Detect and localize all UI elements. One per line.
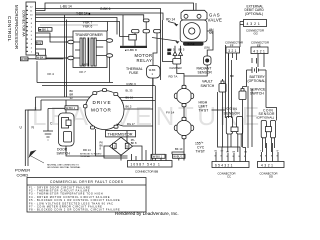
thermistor: [100, 131, 137, 156]
svg-text:W-BK: W-BK: [21, 57, 28, 61]
connector EE: [251, 40, 269, 53]
gas valve base: [183, 42, 204, 46]
node U: [20, 126, 23, 130]
svg-text:VALVE: VALVE: [208, 18, 223, 23]
wire motor right leads: [96, 98, 156, 157]
svg-text:SENSOR: SENSOR: [198, 71, 213, 75]
svg-text:BK 8: BK 8: [131, 141, 137, 145]
door switch: [57, 113, 75, 156]
svg-text:RD 7A: RD 7A: [169, 74, 178, 78]
svg-text:BR: BR: [70, 93, 74, 97]
svg-text:L-BU 14: L-BU 14: [60, 5, 72, 9]
svg-text:MICROPROCESSOR: MICROPROCESSOR: [14, 5, 19, 49]
note keyed terminal: [80, 153, 102, 159]
wire vertical main bus: [153, 78, 156, 161]
svg-text:TRANSFORMER: TRANSFORMER: [75, 33, 103, 37]
wire stubs into DD: [262, 143, 279, 162]
svg-text:BL 33: BL 33: [126, 89, 133, 93]
igniter: [169, 59, 183, 79]
wire top right: [161, 20, 208, 80]
svg-text:FV 14: FV 14: [166, 111, 175, 115]
callout arrow: [168, 22, 176, 24]
cycling thermostat: [166, 111, 205, 154]
svg-text:SWITCH: SWITCH: [57, 152, 71, 156]
svg-text:BASE: BASE: [82, 63, 89, 67]
svg-text:W: W: [277, 151, 279, 153]
transformer T1: [48, 31, 113, 83]
svg-text:RG 17: RG 17: [127, 122, 135, 126]
svg-text:W-BU 1: W-BU 1: [173, 155, 183, 159]
wire label W-BU 1: [173, 154, 186, 158]
svg-text:R-BK 6: R-BK 6: [127, 82, 137, 86]
svg-text:GROUNDED NEUTRAL TERMINAL: GROUNDED NEUTRAL TERMINAL: [47, 166, 81, 169]
wire cyc to BB: [172, 152, 184, 161]
svg-text:4321: 4321: [261, 163, 275, 167]
connector FF: [225, 40, 243, 53]
svg-text:FK 4: FK 4: [48, 72, 55, 76]
svg-text:RELAY: RELAY: [137, 58, 153, 63]
coin sensor 1: [224, 107, 243, 152]
wire label Y-BK 14: [76, 11, 90, 15]
svg-text:BR: BR: [230, 74, 234, 78]
wire label W-BU 1 left: [65, 106, 78, 110]
connector BB: [128, 161, 173, 174]
svg-text:W-BK 1: W-BK 1: [37, 55, 46, 59]
svg-text:FK 7: FK 7: [80, 70, 87, 74]
drive motor: [84, 89, 124, 130]
wire label G-BK 6: [100, 7, 111, 11]
svg-text:BK 3: BK 3: [126, 105, 132, 109]
service switch: [239, 87, 266, 100]
svg-text:TH'ST: TH'ST: [196, 150, 206, 154]
svg-text:BASE: BASE: [188, 42, 195, 46]
wire label Y-BK 6: [83, 25, 93, 29]
svg-text:8: 8: [239, 156, 240, 158]
wire label W-BU 1 bus: [152, 154, 165, 158]
svg-text:W-BU 1: W-BU 1: [66, 106, 76, 110]
svg-text:■-BK 1: ■-BK 1: [39, 28, 49, 32]
svg-text:SENSOR: SENSOR: [224, 111, 241, 115]
connector GG: [240, 20, 267, 36]
svg-text:8: 8: [277, 156, 278, 158]
svg-text:RD 14: RD 14: [166, 17, 175, 21]
node N: [32, 126, 35, 130]
svg-text:8: 8: [265, 156, 266, 158]
svg-text:CC: CC: [227, 175, 231, 179]
svg-text:8: 8: [221, 156, 222, 158]
battery: [247, 67, 267, 83]
svg-text:8: 8: [215, 156, 216, 158]
gas valve coil terminals: [173, 46, 183, 59]
svg-text:BK 5: BK 5: [179, 48, 185, 52]
svg-text:CONNECTOR BB: CONNECTOR BB: [135, 170, 158, 174]
motor relay K1: [108, 15, 161, 63]
callout arrow: [152, 38, 177, 42]
wire labels motor: [70, 89, 136, 153]
gas valve: [152, 10, 222, 58]
svg-text:RD 14: RD 14: [83, 148, 91, 152]
svg-text:SWITCH: SWITCH: [201, 84, 215, 88]
svg-text:8: 8: [271, 156, 272, 158]
svg-text:DRIVE: DRIVE: [93, 100, 112, 105]
svg-text:Rendered by LeadVenture, Inc.: Rendered by LeadVenture, Inc.: [115, 211, 179, 216]
svg-text:IGNITER: IGNITER: [170, 66, 183, 70]
svg-text:10987 543 1: 10987 543 1: [131, 163, 161, 167]
svg-text:W-BK: W-BK: [149, 68, 156, 72]
svg-text:CONTROL: CONTROL: [7, 16, 12, 42]
power cord: [15, 97, 81, 177]
svg-text:Y-BK 6: Y-BK 6: [83, 25, 93, 29]
wire label L-BU 14: [60, 5, 72, 9]
svg-text:▸O-BK 8: ▸O-BK 8: [125, 48, 137, 52]
wire label W-BK 1: [39, 28, 53, 32]
svg-text:TERMINAL: TERMINAL: [80, 155, 91, 158]
svg-text:GG: GG: [254, 32, 258, 36]
svg-text:33: 33: [70, 96, 73, 100]
svg-text:CONNECTOR AA: CONNECTOR AA: [21, 10, 25, 37]
connector AA pin numbers: [30, 6, 33, 53]
svg-text:5/5: 5/5: [209, 31, 213, 35]
svg-text:FUSE: FUSE: [129, 71, 139, 75]
wire top bus from connector AA: [36, 3, 197, 58]
svg-text:4321: 4321: [247, 22, 262, 26]
svg-text:DD: DD: [269, 175, 273, 179]
svg-text:BU 16: BU 16: [126, 96, 134, 100]
svg-text:TH'ST: TH'ST: [199, 109, 210, 113]
connector CC: [212, 162, 249, 179]
svg-text:BU2: BU2: [36, 41, 42, 45]
svg-text:(GN): (GN): [204, 46, 210, 50]
high limit thermostat: [174, 80, 209, 118]
svg-text:654321: 654321: [215, 163, 234, 167]
svg-text:8: 8: [260, 156, 261, 158]
svg-text:(OPTIONAL): (OPTIONAL): [257, 116, 275, 120]
svg-text:MOTOR: MOTOR: [91, 108, 112, 113]
microprocessor control labels: [7, 5, 25, 49]
connector DD: [258, 162, 285, 179]
wire label Y-BK 7: [83, 20, 93, 24]
svg-text:COMMERCIAL DRYER FAULT CODES: COMMERCIAL DRYER FAULT CODES: [50, 180, 124, 184]
wire gray run: [40, 24, 98, 26]
wire label BK 13: [175, 147, 183, 151]
wire right bus: [207, 22, 277, 154]
svg-text:W-BU 1: W-BU 1: [153, 155, 163, 159]
svg-text:8: 8: [244, 156, 245, 158]
thermal fuse F1: [126, 60, 160, 86]
svg-text:(OPTIONAL): (OPTIONAL): [248, 79, 267, 83]
ground: [43, 131, 53, 140]
coin sensor 2 (optional): [257, 108, 276, 152]
svg-text:8: 8: [227, 156, 228, 158]
svg-text:G-BK 6: G-BK 6: [100, 7, 111, 11]
radiant sensor: [197, 56, 213, 75]
svg-text:321: 321: [228, 49, 238, 53]
connector AA: [26, 2, 36, 55]
svg-text:8: 8: [233, 156, 234, 158]
svg-text:CORD: CORD: [17, 172, 29, 177]
svg-text:(OPTIONAL): (OPTIONAL): [245, 12, 263, 16]
wire stubs into BB: [132, 150, 167, 161]
wire label W-BK lower: [21, 55, 64, 61]
external debit card: [245, 4, 265, 16]
node C: [50, 122, 53, 126]
svg-text:F8 - BLOCKED COIN 2 OR CONTROL: F8 - BLOCKED COIN 2 OR CONTROL CIRCUIT F…: [29, 209, 120, 212]
svg-text:Y-BK 14 ■: Y-BK 14 ■: [76, 11, 90, 15]
vault switch: [201, 79, 227, 92]
svg-text:BK: BK: [70, 89, 74, 93]
wire thermistor to BB: [104, 131, 142, 161]
svg-text:4321: 4321: [253, 49, 266, 53]
svg-text:BK 13: BK 13: [175, 147, 183, 151]
wire mid buses: [36, 15, 156, 100]
wire door switch: [66, 100, 104, 156]
fault code table: [27, 178, 146, 213]
svg-text:THERMAL: THERMAL: [126, 67, 143, 71]
wire label BU 2: [36, 41, 43, 45]
ghost watermark: [32, 101, 263, 131]
svg-text:BR: BR: [168, 53, 172, 56]
watermark: [115, 211, 179, 216]
wire stubs into CC: [216, 147, 246, 162]
wire coin sensor drops: [276, 117, 278, 120]
wire label R-BK 6: [127, 82, 137, 86]
svg-text:THERMISTOR: THERMISTOR: [108, 133, 133, 137]
